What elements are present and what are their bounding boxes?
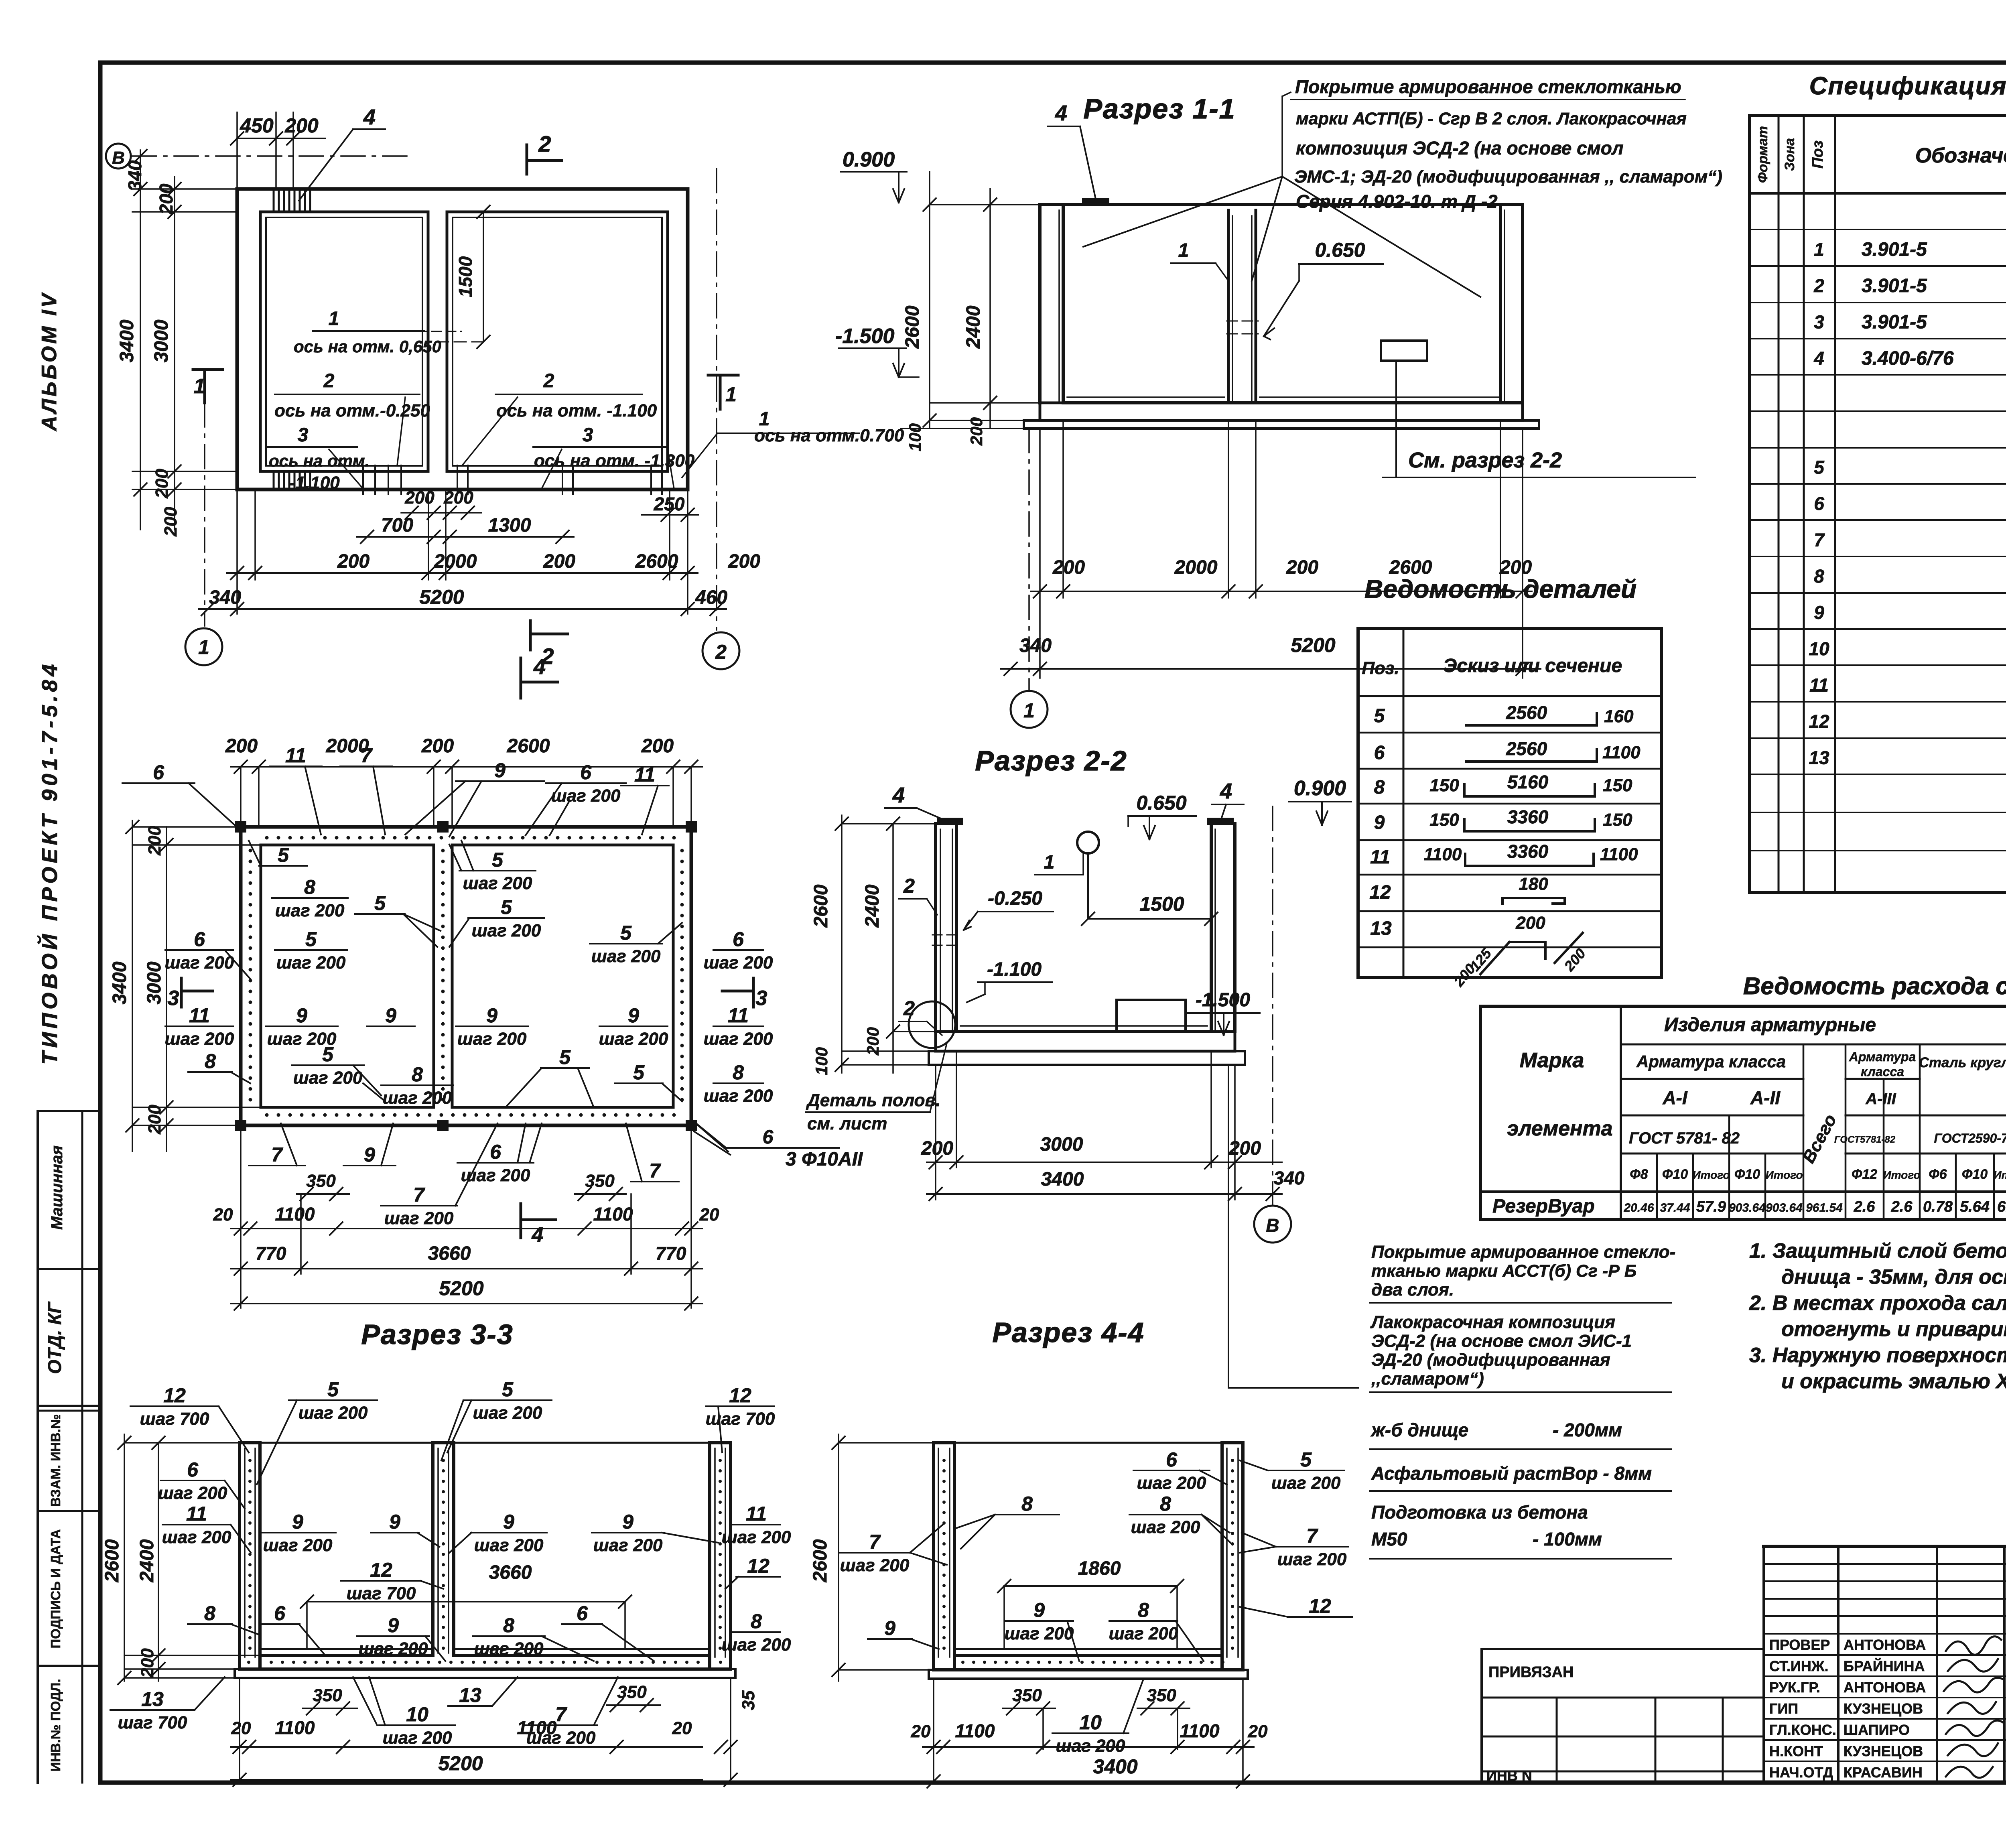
svg-text:7: 7 <box>361 744 373 767</box>
svg-text:6: 6 <box>274 1602 286 1625</box>
svg-text:7: 7 <box>1814 530 1825 550</box>
section mark 1 left <box>193 368 223 371</box>
svg-text:тканью марки АССТ(б) Сг -Р Б: тканью марки АССТ(б) Сг -Р Б <box>1371 1261 1636 1281</box>
svg-text:150: 150 <box>1429 810 1459 830</box>
svg-text:350: 350 <box>1012 1686 1042 1705</box>
svg-text:10: 10 <box>406 1703 428 1726</box>
svg-text:903.64: 903.64 <box>1766 1201 1803 1214</box>
svg-text:Сталь круглая: Сталь круглая <box>1919 1055 2006 1070</box>
svg-text:шаг 200: шаг 200 <box>383 1728 452 1748</box>
svg-text:шаг 200: шаг 200 <box>472 921 541 940</box>
svg-text:3.901-5: 3.901-5 <box>1862 312 1927 333</box>
svg-text:12: 12 <box>1369 882 1391 903</box>
svg-text:АНТОНОВА: АНТОНОВА <box>1844 1679 1926 1696</box>
section 2-2 base strip <box>929 1051 1245 1065</box>
svg-text:340: 340 <box>1274 1168 1305 1188</box>
svg-text:2600: 2600 <box>902 305 923 349</box>
svg-text:Серия 4.902-10. т Д -2: Серия 4.902-10. т Д -2 <box>1296 191 1498 212</box>
svg-text:1: 1 <box>1178 240 1189 261</box>
svg-text:8: 8 <box>412 1063 423 1086</box>
svg-text:Обозначение: Обозначение <box>1915 144 2006 167</box>
svg-text:шаг 200: шаг 200 <box>474 1535 544 1555</box>
svg-text:ж-б днище: ж-б днище <box>1370 1420 1468 1440</box>
svg-text:460: 460 <box>695 587 727 608</box>
section 1-1 top edge <box>1040 203 1523 206</box>
reinf plan rebar dots bottom <box>265 1113 269 1117</box>
plan view left chamber <box>260 212 428 471</box>
svg-text:шаг 700: шаг 700 <box>347 1584 416 1603</box>
svg-text:200: 200 <box>967 417 986 446</box>
svg-text:шаг 200: шаг 200 <box>263 1535 333 1555</box>
svg-text:11: 11 <box>189 1004 210 1027</box>
section 4-4 right wall <box>1220 1443 1224 1670</box>
svg-text:ЭД-20 (модифицированная: ЭД-20 (модифицированная <box>1371 1350 1610 1370</box>
svg-text:20: 20 <box>231 1718 251 1738</box>
svg-text:8: 8 <box>1138 1599 1149 1621</box>
svg-text:11: 11 <box>186 1503 207 1525</box>
section 2-2 axis B dash <box>1272 806 1273 1204</box>
svg-text:- 200мм: - 200мм <box>1553 1420 1622 1440</box>
svg-text:3 Ф10АII: 3 Ф10АII <box>786 1149 863 1170</box>
section 3-3 base strip <box>235 1669 735 1678</box>
svg-text:350: 350 <box>313 1686 342 1705</box>
svg-text:4: 4 <box>533 655 546 679</box>
section 4-4 left wall <box>932 1443 935 1670</box>
svg-text:5: 5 <box>633 1061 645 1084</box>
svg-text:шаг 200: шаг 200 <box>158 1483 227 1503</box>
svg-text:Эскиз или сечение: Эскиз или сечение <box>1443 655 1622 676</box>
svg-text:1500: 1500 <box>455 256 476 297</box>
svg-text:отогнуть и приварить к кор: отогнуть и приварить к корпусу сальника. <box>1781 1318 2006 1341</box>
svg-text:2. В местах прохода сальни: 2. В местах прохода сальников арматуру р… <box>1749 1292 2006 1315</box>
svg-text:6: 6 <box>1166 1448 1178 1471</box>
svg-text:5: 5 <box>1814 457 1825 478</box>
svg-text:3: 3 <box>756 987 767 1010</box>
axis 2 dash line <box>716 169 717 630</box>
svg-text:БРАЙНИНА: БРАЙНИНА <box>1844 1657 1925 1674</box>
svg-text:Ф10: Ф10 <box>1662 1167 1688 1182</box>
svg-text:57.9: 57.9 <box>1696 1198 1726 1215</box>
svg-text:ГОСТ 5781- 82: ГОСТ 5781- 82 <box>1629 1129 1740 1147</box>
svg-text:5: 5 <box>492 849 504 871</box>
svg-text:элемента: элемента <box>1507 1117 1612 1140</box>
section 1-1 base strip <box>1024 420 1539 428</box>
svg-text:8: 8 <box>304 876 315 898</box>
svg-text:5: 5 <box>327 1378 339 1401</box>
svg-text:200: 200 <box>284 114 319 137</box>
section 3-3 interior bottoms <box>260 1648 433 1650</box>
svg-text:2400: 2400 <box>136 1539 158 1582</box>
plan leader 3 left <box>329 449 363 489</box>
plan leader 3 right <box>542 449 562 489</box>
svg-text:Зона: Зона <box>1782 138 1797 171</box>
svg-text:марки АСТП(Б) - Сгр В 2 слоя.: марки АСТП(Б) - Сгр В 2 слоя. Лакокрасоч… <box>1296 109 1687 128</box>
svg-text:ШАПИРО: ШАПИРО <box>1844 1722 1910 1738</box>
svg-text:3: 3 <box>168 987 179 1010</box>
svg-text:13: 13 <box>1370 918 1392 939</box>
svg-text:Итого: Итого <box>1765 1169 1803 1181</box>
svg-text:шаг 200: шаг 200 <box>473 1403 542 1423</box>
svg-text:СТ.ИНЖ.: СТ.ИНЖ. <box>1769 1658 1828 1674</box>
svg-text:6: 6 <box>490 1141 501 1163</box>
svg-text:2400: 2400 <box>862 884 883 928</box>
svg-text:Ф6: Ф6 <box>1929 1167 1947 1182</box>
svg-text:2000: 2000 <box>434 551 477 572</box>
svg-text:11: 11 <box>728 1004 749 1027</box>
svg-text:12: 12 <box>163 1384 186 1407</box>
svg-text:ИНВ N: ИНВ N <box>1486 1767 1532 1784</box>
vedomost detaley header line <box>1358 695 1661 697</box>
reinf section mark 3 left <box>180 978 183 1007</box>
svg-text:5: 5 <box>502 1378 514 1401</box>
svg-text:200: 200 <box>225 735 258 757</box>
title block left sub-table <box>1482 1648 1764 1650</box>
svg-text:0.650: 0.650 <box>1136 792 1186 814</box>
svg-text:1100: 1100 <box>275 1204 315 1225</box>
svg-text:ИНВ.№ ПОДЛ.: ИНВ.№ ПОДЛ. <box>48 1679 63 1771</box>
svg-text:шаг 200: шаг 200 <box>474 1639 544 1659</box>
svg-text:20: 20 <box>699 1205 719 1225</box>
svg-text:3.901-5: 3.901-5 <box>1862 239 1927 260</box>
svg-text:180: 180 <box>1519 874 1548 894</box>
svg-text:шаг 200: шаг 200 <box>591 946 661 966</box>
svg-text:и окрасить эмалью ХСПЭ по: и окрасить эмалью ХСПЭ по грунту лак ХСП… <box>1781 1370 2006 1393</box>
svg-text:2.6: 2.6 <box>1891 1198 1913 1215</box>
axis 1 dash line <box>204 403 205 626</box>
svg-text:шаг 200: шаг 200 <box>1109 1624 1178 1643</box>
svg-text:200: 200 <box>156 183 177 215</box>
svg-text:7: 7 <box>649 1160 661 1182</box>
section 2-2 left wall <box>934 824 937 1032</box>
section 1-1 left wall <box>1038 205 1042 403</box>
svg-text:1100: 1100 <box>1602 743 1641 762</box>
svg-text:770: 770 <box>656 1243 686 1264</box>
svg-text:Разрез 4-4: Разрез 4-4 <box>992 1317 1144 1348</box>
svg-text:ПОДПИСЬ И ДАТА: ПОДПИСЬ И ДАТА <box>48 1529 63 1648</box>
svg-text:5: 5 <box>501 896 512 918</box>
svg-text:350: 350 <box>617 1682 647 1702</box>
svg-text:ТИПОВОЙ ПРОЕКТ 901-7-5.84: ТИПОВОЙ ПРОЕКТ 901-7-5.84 <box>37 660 62 1064</box>
section 1-1 sleeve box right chamber <box>1381 341 1427 361</box>
section 1-1 floor slab <box>1040 403 1523 420</box>
svg-text:350: 350 <box>585 1171 615 1191</box>
section 2-2 pedestal <box>1117 1000 1186 1032</box>
svg-text:шаг 700: шаг 700 <box>118 1713 187 1732</box>
svg-text:5: 5 <box>374 892 386 914</box>
svg-text:Машинная: Машинная <box>48 1145 66 1230</box>
svg-text:ПРИВЯЗАН: ПРИВЯЗАН <box>1488 1664 1574 1681</box>
svg-text:2000: 2000 <box>1174 557 1218 578</box>
svg-text:7: 7 <box>555 1703 567 1726</box>
svg-text:3: 3 <box>1814 312 1824 333</box>
svg-text:Ф10: Ф10 <box>1962 1167 1988 1182</box>
svg-text:13: 13 <box>1809 747 1829 768</box>
svg-text:шаг 200: шаг 200 <box>1271 1473 1341 1493</box>
svg-text:Ведомость расхода стали на: Ведомость расхода стали на резервуар, кг <box>1743 973 2006 999</box>
svg-text:ГЛ.КОНС.: ГЛ.КОНС. <box>1769 1722 1836 1738</box>
svg-text:8: 8 <box>204 1602 215 1625</box>
svg-text:450: 450 <box>240 114 274 137</box>
svg-text:0.78: 0.78 <box>1923 1198 1953 1215</box>
svg-text:Разрез 3-3: Разрез 3-3 <box>361 1319 513 1350</box>
section 3-3 right wall <box>708 1443 711 1669</box>
spec table verticals <box>1778 116 1780 892</box>
svg-text:9: 9 <box>296 1004 307 1027</box>
svg-text:КРАСАВИН: КРАСАВИН <box>1844 1764 1923 1781</box>
svg-text:5: 5 <box>278 844 289 866</box>
svg-text:шаг 200: шаг 200 <box>162 1527 231 1547</box>
svg-text:200: 200 <box>863 1027 882 1056</box>
svg-text:шаг 200: шаг 200 <box>1277 1549 1347 1569</box>
svg-text:Итого: Итого <box>1993 1169 2006 1181</box>
margin stamp boxes <box>37 1111 39 1783</box>
svg-text:шаг 700: шаг 700 <box>706 1409 775 1429</box>
svg-text:9: 9 <box>494 759 506 782</box>
section 2-2 bottom extensions <box>935 1065 936 1200</box>
svg-text:13: 13 <box>141 1688 164 1710</box>
svg-text:Н.КОНТ: Н.КОНТ <box>1769 1743 1823 1759</box>
svg-text:8: 8 <box>751 1610 762 1633</box>
plan small dashes middle wall <box>417 331 461 332</box>
svg-text:3000: 3000 <box>1040 1134 1083 1155</box>
svg-text:5: 5 <box>620 922 632 944</box>
svg-text:Разрез 2-2: Разрез 2-2 <box>975 745 1127 776</box>
svg-text:7: 7 <box>271 1143 283 1166</box>
svg-text:АЛЬБОМ IV: АЛЬБОМ IV <box>38 291 61 432</box>
svg-text:1: 1 <box>1044 852 1055 873</box>
section 1-1 embedded plate 4 <box>1083 199 1108 205</box>
svg-text:6: 6 <box>1814 493 1824 514</box>
svg-text:8: 8 <box>1021 1493 1033 1515</box>
svg-text:20: 20 <box>911 1722 931 1741</box>
svg-text:ГОСТ5781-82: ГОСТ5781-82 <box>1834 1134 1896 1145</box>
reinf plan inner rect right chamber <box>452 845 673 1107</box>
svg-text:9: 9 <box>1814 602 1824 623</box>
svg-text:6: 6 <box>1374 742 1385 764</box>
svg-text:АНТОНОВА: АНТОНОВА <box>1844 1637 1926 1653</box>
svg-text:шаг 200: шаг 200 <box>551 786 621 806</box>
svg-text:-1.500: -1.500 <box>835 325 895 348</box>
svg-text:шаг 200: шаг 200 <box>165 1029 234 1049</box>
svg-text:2600: 2600 <box>102 1539 123 1582</box>
svg-text:0.900: 0.900 <box>843 148 895 171</box>
svg-text:3.901-5: 3.901-5 <box>1862 275 1927 296</box>
axis circle B bottom <box>1254 1206 1291 1243</box>
svg-text:8: 8 <box>503 1614 514 1637</box>
svg-text:9: 9 <box>503 1511 514 1533</box>
plan view right chamber <box>447 212 668 471</box>
svg-text:9: 9 <box>1033 1599 1045 1621</box>
svg-text:160: 160 <box>1604 707 1634 726</box>
svg-text:Ф12: Ф12 <box>1852 1167 1877 1182</box>
svg-text:770: 770 <box>256 1243 286 1264</box>
svg-text:,,сламаром“): ,,сламаром“) <box>1371 1369 1484 1389</box>
section 2-2 right wall <box>1210 824 1213 1032</box>
section 3-3 left wall <box>238 1443 241 1669</box>
svg-text:Разрез 1-1: Разрез 1-1 <box>1083 93 1235 124</box>
reinf plan section mark 4 top <box>520 658 522 698</box>
svg-text:4: 4 <box>1220 779 1232 803</box>
plan leader 2 right <box>462 397 518 465</box>
section 2-2 floor slab <box>936 1032 1235 1051</box>
reinf plan rebar dots right <box>680 849 684 853</box>
svg-text:шаг 200: шаг 200 <box>384 1208 454 1228</box>
svg-text:6.42: 6.42 <box>1997 1198 2006 1215</box>
svg-text:шаг 200: шаг 200 <box>165 953 234 973</box>
svg-text:шаг 200: шаг 200 <box>840 1556 910 1575</box>
svg-text:4: 4 <box>363 105 376 129</box>
svg-text:шаг 200: шаг 200 <box>722 1527 791 1547</box>
svg-text:3360: 3360 <box>1507 841 1549 862</box>
steel table verticals <box>1620 1006 1622 1220</box>
svg-text:11: 11 <box>1809 675 1829 696</box>
svg-text:8: 8 <box>1160 1493 1171 1515</box>
svg-text:Марка: Марка <box>1520 1049 1584 1072</box>
svg-text:днища - 35мм, для остальной: днища - 35мм, для остальной арматуры - 2… <box>1781 1265 2006 1289</box>
svg-text:6: 6 <box>763 1127 774 1148</box>
svg-text:2600: 2600 <box>810 884 832 928</box>
svg-text:11: 11 <box>634 764 655 786</box>
svg-text:шаг 200: шаг 200 <box>1056 1736 1125 1756</box>
svg-text:8: 8 <box>205 1050 216 1072</box>
svg-text:шаг 200: шаг 200 <box>704 1029 773 1049</box>
svg-text:6: 6 <box>580 761 592 784</box>
section 3-3 wall rebar dots <box>248 1459 252 1462</box>
svg-text:Итого: Итого <box>1692 1169 1730 1181</box>
svg-text:Спецификация монолитного рез: Спецификация монолитного резервуара <box>1809 72 2006 100</box>
section 3-3 middle wall <box>431 1443 434 1655</box>
svg-text:3400: 3400 <box>1041 1169 1084 1190</box>
section 3-3 floor slab <box>240 1667 731 1671</box>
svg-text:ось на отм.: ось на отм. <box>269 451 370 470</box>
svg-text:5200: 5200 <box>438 1752 483 1775</box>
svg-text:2: 2 <box>715 641 727 663</box>
svg-text:20.46: 20.46 <box>1623 1201 1654 1214</box>
svg-text:9: 9 <box>292 1511 303 1533</box>
svg-text:340: 340 <box>209 587 241 608</box>
svg-text:-0.250: -0.250 <box>988 888 1042 909</box>
svg-text:шаг 200: шаг 200 <box>383 1088 452 1108</box>
section 2-2 wall level dashes <box>932 934 960 936</box>
svg-text:200: 200 <box>337 551 370 572</box>
svg-text:Арматура: Арматура <box>1849 1050 1916 1064</box>
svg-text:9: 9 <box>884 1617 895 1639</box>
svg-text:1: 1 <box>194 375 205 398</box>
section 1-1 bottom extension lines <box>1062 420 1064 598</box>
svg-text:6: 6 <box>187 1458 199 1481</box>
svg-text:2: 2 <box>543 370 554 392</box>
axis B circle <box>106 144 131 169</box>
svg-text:9: 9 <box>1374 812 1385 833</box>
svg-text:37.44: 37.44 <box>1660 1201 1690 1214</box>
svg-text:ГИП: ГИП <box>1769 1700 1798 1717</box>
svg-text:3400: 3400 <box>116 319 138 362</box>
svg-text:3: 3 <box>298 424 309 446</box>
svg-text:6: 6 <box>194 928 205 950</box>
svg-text:1100: 1100 <box>593 1204 633 1225</box>
svg-text:200: 200 <box>921 1138 953 1159</box>
svg-text:200: 200 <box>161 507 181 537</box>
reinf section mark 4 bottom <box>520 1204 522 1238</box>
svg-text:КУЗНЕЦОВ: КУЗНЕЦОВ <box>1844 1743 1923 1759</box>
svg-text:9: 9 <box>385 1004 396 1027</box>
svg-text:А-I: А-I <box>1662 1087 1688 1108</box>
section 1-1 middle wall <box>1227 210 1230 403</box>
svg-text:Поз.: Поз. <box>1362 658 1399 678</box>
svg-text:шаг 200: шаг 200 <box>722 1635 791 1655</box>
svg-text:10: 10 <box>1809 638 1829 659</box>
svg-text:ВЗАМ. ИНВ.№: ВЗАМ. ИНВ.№ <box>48 1414 63 1507</box>
svg-text:класса: класса <box>1861 1064 1904 1079</box>
svg-text:Ведомость деталей: Ведомость деталей <box>1364 575 1636 603</box>
svg-text:А-II: А-II <box>1750 1087 1781 1108</box>
svg-text:Покрытие армированное стеклотк: Покрытие армированное стеклотканью <box>1295 76 1681 97</box>
svg-text:См. разрез 2-2: См. разрез 2-2 <box>1408 448 1562 472</box>
title block signature columns <box>1762 1546 1765 1783</box>
svg-text:200: 200 <box>152 469 172 499</box>
plan view sleeve hatch bottom <box>273 471 275 489</box>
svg-text:2560: 2560 <box>1506 738 1547 759</box>
svg-text:Поз: Поз <box>1809 140 1826 169</box>
section 4-4 floor slab <box>934 1668 1243 1671</box>
svg-text:5: 5 <box>1300 1448 1312 1471</box>
svg-text:КУЗНЕЦОВ: КУЗНЕЦОВ <box>1844 1700 1923 1717</box>
axis B line <box>132 155 411 157</box>
axis circle 1 <box>185 628 222 665</box>
svg-text:3660: 3660 <box>489 1562 532 1583</box>
section 1-1 right wall <box>1499 205 1502 403</box>
svg-text:200: 200 <box>1228 1138 1261 1159</box>
svg-text:-1.500: -1.500 <box>1196 989 1250 1011</box>
svg-text:ПРОВЕР: ПРОВЕР <box>1769 1637 1830 1653</box>
svg-text:4: 4 <box>532 1223 544 1247</box>
svg-text:200: 200 <box>404 488 434 508</box>
svg-text:340: 340 <box>1019 635 1052 656</box>
svg-text:2: 2 <box>538 131 551 156</box>
svg-text:Ф10: Ф10 <box>1734 1167 1760 1182</box>
svg-text:8: 8 <box>1374 777 1385 798</box>
svg-text:5: 5 <box>1374 705 1385 727</box>
annotation leader lines <box>1282 92 1291 96</box>
plan sleeve ticks bottom wall <box>362 465 364 494</box>
svg-text:200: 200 <box>728 551 760 572</box>
svg-text:2: 2 <box>323 370 335 392</box>
svg-text:-1.100: -1.100 <box>290 473 340 493</box>
svg-text:Ф8: Ф8 <box>1630 1167 1648 1182</box>
svg-text:2400: 2400 <box>963 305 984 349</box>
svg-text:А-III: А-III <box>1865 1090 1896 1108</box>
svg-text:2: 2 <box>903 997 915 1019</box>
svg-text:4: 4 <box>1813 348 1824 369</box>
reinf plan corner squares <box>235 821 246 833</box>
svg-text:20: 20 <box>213 1205 233 1225</box>
reinf plan rebar dots middle <box>441 849 445 853</box>
svg-text:11: 11 <box>746 1503 767 1525</box>
svg-text:- 100мм: - 100мм <box>1533 1529 1602 1549</box>
section 2-2 interior bottom <box>956 1030 1211 1033</box>
svg-text:Деталь полов.: Деталь полов. <box>806 1091 940 1110</box>
section 4-4 top edge <box>954 1442 1222 1444</box>
svg-text:200: 200 <box>543 551 575 572</box>
section 2-2 pipe circle <box>1077 832 1099 853</box>
steel table horizontals <box>1621 1044 2006 1046</box>
svg-text:шаг 200: шаг 200 <box>293 1068 363 1088</box>
svg-text:11: 11 <box>1370 847 1390 868</box>
svg-text:0.650: 0.650 <box>1315 239 1365 261</box>
svg-text:1500: 1500 <box>1139 893 1184 915</box>
vedomost detaley table frame <box>1358 628 1661 977</box>
svg-text:см. лист: см. лист <box>807 1114 887 1133</box>
